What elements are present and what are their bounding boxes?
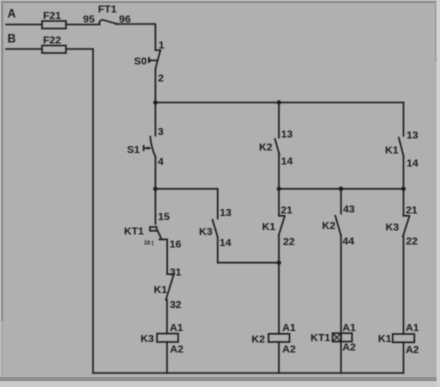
wire S1 to node2 bbox=[154, 157, 156, 189]
coil K3 bbox=[157, 334, 178, 342]
pin 32 bbox=[170, 299, 182, 311]
svg-text:K2: K2 bbox=[252, 333, 266, 345]
svg-text:K3: K3 bbox=[199, 226, 213, 238]
svg-text:22: 22 bbox=[283, 236, 295, 248]
wire S0 to node bbox=[154, 69, 156, 103]
svg-text:2: 2 bbox=[158, 73, 164, 85]
svg-text:S1: S1 bbox=[127, 144, 140, 156]
svg-text:43: 43 bbox=[343, 203, 355, 215]
svg-text:15: 15 bbox=[158, 211, 170, 223]
left bus wire bbox=[155, 188, 217, 190]
svg-text:3: 3 bbox=[158, 126, 164, 138]
wire K1 contact to K3 coil bbox=[166, 300, 168, 334]
node mid K3col bbox=[401, 187, 405, 191]
label KT1 bbox=[124, 225, 144, 237]
wire mid bus to K2 contact bbox=[340, 189, 342, 214]
pin 22 of K3 bbox=[406, 235, 418, 247]
wire top bus to K2 contact bbox=[278, 103, 280, 138]
label K3 mid bbox=[386, 221, 400, 233]
label K2 top bbox=[259, 141, 273, 153]
pin 13 of K3 bbox=[220, 207, 232, 219]
coil KT1 bbox=[333, 333, 352, 341]
svg-text:KT1: KT1 bbox=[124, 225, 144, 237]
wire A left bbox=[6, 24, 42, 26]
svg-text:21: 21 bbox=[281, 204, 293, 216]
pin 31 bbox=[170, 266, 182, 278]
contact K1 21-22 (NC) bbox=[279, 216, 285, 236]
svg-text:18 (: 18 ( bbox=[144, 241, 154, 247]
svg-text:A1: A1 bbox=[282, 322, 296, 334]
label S0 bbox=[134, 56, 147, 68]
thermal contact FT1 bbox=[99, 20, 117, 25]
contact K3 21-22 (NC) bbox=[403, 216, 409, 237]
svg-text:S0: S0 bbox=[134, 56, 147, 68]
svg-text:B: B bbox=[8, 34, 16, 46]
pin 22 of K1 bbox=[283, 236, 295, 248]
node mid-left bbox=[153, 187, 157, 191]
label FT1 bbox=[98, 4, 117, 16]
pin 14 of K2 bbox=[281, 155, 293, 167]
label K2 mid bbox=[322, 220, 336, 232]
terminal B bbox=[8, 34, 16, 46]
pin A1 of K2 bbox=[282, 322, 296, 334]
svg-text:K3: K3 bbox=[141, 333, 155, 345]
node mid K2col bbox=[339, 187, 343, 191]
pin 14 of K1 bbox=[407, 157, 419, 169]
node mid K1col bbox=[277, 187, 281, 191]
wire node2 to KT1 contact bbox=[154, 189, 156, 224]
svg-text:14: 14 bbox=[407, 157, 419, 169]
pin 21 of K1 bbox=[281, 204, 293, 216]
mid bus wire bbox=[279, 188, 404, 190]
svg-text:KT1: KT1 bbox=[311, 332, 331, 344]
fuse F22 bbox=[42, 46, 66, 54]
pin 4 bbox=[158, 156, 164, 168]
svg-text:A1: A1 bbox=[170, 322, 184, 334]
svg-text:A1: A1 bbox=[342, 322, 356, 334]
label K1 mid bbox=[262, 221, 276, 233]
label F21 bbox=[43, 10, 61, 22]
contact K3 13-14 (NO) bbox=[213, 220, 218, 237]
wire K3 contact to K1 coil bbox=[403, 236, 405, 334]
svg-text:22: 22 bbox=[406, 235, 418, 247]
svg-text:A1: A1 bbox=[406, 322, 420, 334]
svg-text:95: 95 bbox=[83, 14, 95, 26]
svg-text:4: 4 bbox=[158, 156, 164, 168]
label K1 aux-left bbox=[154, 284, 168, 296]
svg-text:A2: A2 bbox=[342, 341, 356, 353]
pin 43 of K2 bbox=[343, 203, 355, 215]
wire node3 to K2 coil bbox=[278, 263, 280, 334]
svg-text:K2: K2 bbox=[322, 220, 336, 232]
wire K1 coil to rail bbox=[403, 342, 405, 373]
contact K2 13-14 (NO) bbox=[275, 139, 279, 155]
node3 bbox=[277, 261, 281, 265]
pin 95 bbox=[83, 14, 95, 26]
label K2 coil bbox=[252, 333, 266, 345]
label KT1 coil bbox=[311, 332, 331, 344]
pin 13 of K2 bbox=[281, 128, 293, 140]
pin 15 bbox=[158, 211, 170, 223]
label F22 bbox=[43, 35, 61, 47]
svg-text:A2: A2 bbox=[406, 344, 420, 356]
label S1 bbox=[127, 144, 140, 156]
wire K3 coil to rail bbox=[166, 342, 168, 373]
coil K2 bbox=[269, 334, 290, 342]
node top-left bbox=[153, 100, 157, 104]
coil K1 bbox=[393, 334, 415, 342]
pin A2 of K1 bbox=[406, 344, 420, 356]
pin 18 mark bbox=[144, 241, 154, 247]
pin 44 of K2 bbox=[343, 235, 355, 247]
pin A1 of K3 bbox=[170, 322, 184, 334]
svg-text:K1: K1 bbox=[154, 284, 168, 296]
svg-text:K1: K1 bbox=[378, 333, 392, 345]
bottom rail wire bbox=[93, 372, 404, 374]
svg-text:13: 13 bbox=[281, 128, 293, 140]
wire node to S1 bbox=[154, 103, 156, 136]
svg-text:16: 16 bbox=[170, 238, 182, 250]
contact K2 43-44 (NO) bbox=[335, 216, 341, 236]
pin 16 bbox=[170, 238, 182, 250]
svg-text:F22: F22 bbox=[43, 35, 61, 47]
wire K2 coil to rail bbox=[278, 342, 280, 373]
label K1 top bbox=[385, 144, 399, 156]
wire K1 contact to mid bus bbox=[403, 156, 405, 189]
node top K2 branch bbox=[277, 100, 281, 104]
svg-text:13: 13 bbox=[407, 129, 419, 141]
svg-text:32: 32 bbox=[170, 299, 182, 311]
wire K3 contact to node3 bbox=[218, 237, 279, 263]
wire mid bus to K1 contact bbox=[278, 189, 280, 216]
pin A1 of KT1 bbox=[342, 322, 356, 334]
pin A2 of K2 bbox=[282, 344, 296, 356]
pin 96 bbox=[119, 14, 131, 26]
wire K2 contact to KT1 coil bbox=[340, 236, 342, 334]
wire B column bbox=[92, 49, 94, 373]
wire K2 contact to mid bus bbox=[278, 155, 280, 189]
svg-text:F21: F21 bbox=[43, 10, 61, 22]
svg-text:A: A bbox=[8, 9, 16, 21]
fuse F21 bbox=[42, 21, 66, 29]
pin 14 of K3 bbox=[220, 237, 232, 249]
svg-text:44: 44 bbox=[343, 235, 355, 247]
pin 1 bbox=[159, 40, 165, 52]
contact K1 31-32 (NC) bbox=[166, 274, 174, 300]
pin 13 of K1 bbox=[407, 129, 419, 141]
pin 3 bbox=[158, 126, 164, 138]
svg-text:K1: K1 bbox=[385, 144, 399, 156]
pin A1 of K1 bbox=[406, 322, 420, 334]
wire KT1 to K1 contact bbox=[166, 239, 168, 274]
wire KT1 coil to rail bbox=[340, 342, 342, 373]
pin 21 of K3 bbox=[406, 204, 418, 216]
label K3 aux bbox=[199, 226, 213, 238]
wire K1 contact to node3 bbox=[278, 236, 280, 263]
svg-text:A2: A2 bbox=[282, 344, 296, 356]
wire left bus to K3 contact bbox=[217, 189, 219, 219]
pin A2 of KT1 bbox=[342, 341, 356, 353]
top bus wire bbox=[155, 102, 403, 104]
terminal A bbox=[8, 9, 16, 21]
time contact KT1 bbox=[150, 227, 167, 239]
svg-text:FT1: FT1 bbox=[98, 4, 117, 16]
label K3 coil bbox=[141, 333, 155, 345]
wire mid bus to K3 contact bbox=[403, 189, 405, 216]
svg-text:14: 14 bbox=[281, 155, 293, 167]
svg-text:14: 14 bbox=[220, 237, 232, 249]
button S0 (NC) bbox=[149, 50, 161, 69]
wire B left bbox=[6, 48, 42, 50]
wire A to FT1 bbox=[66, 24, 100, 26]
svg-text:K3: K3 bbox=[386, 221, 400, 233]
contact K1 13-14 (NO) bbox=[399, 138, 404, 156]
svg-text:13: 13 bbox=[220, 207, 232, 219]
wire top bus corner to K1 contact bbox=[403, 103, 405, 136]
button S1 (NO) bbox=[144, 137, 156, 157]
svg-text:21: 21 bbox=[406, 204, 418, 216]
wire FT1 to S0 bbox=[116, 24, 156, 50]
pin 2 bbox=[158, 73, 164, 85]
label K1 coil bbox=[378, 333, 392, 345]
wire B to corner bbox=[66, 48, 93, 50]
svg-text:A2: A2 bbox=[170, 343, 184, 355]
svg-text:31: 31 bbox=[170, 266, 182, 278]
svg-text:K2: K2 bbox=[259, 141, 273, 153]
pin A2 of K3 bbox=[170, 343, 184, 355]
svg-text:K1: K1 bbox=[262, 221, 276, 233]
